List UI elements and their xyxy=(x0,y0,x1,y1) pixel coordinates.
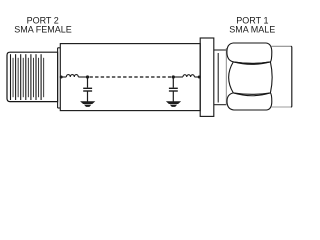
hex nut middle face barrel xyxy=(229,62,273,94)
barrel end line xyxy=(290,46,293,107)
wire node B to L2 xyxy=(173,76,183,78)
wire L1 to node A xyxy=(78,76,87,78)
node at left wall xyxy=(60,76,63,79)
wire L2 to right wall xyxy=(194,76,200,78)
threaded barrel top edge xyxy=(271,45,291,47)
port 2 knurled nut outline xyxy=(7,52,58,101)
hex nut top face inner arc xyxy=(233,62,270,64)
hex nut silhouette left xyxy=(225,48,227,105)
node B junction dot xyxy=(172,75,175,78)
inductor L1 xyxy=(66,75,78,77)
wire C2 to ground xyxy=(172,91,174,102)
nut boss ring xyxy=(214,50,227,105)
dashed transmission line xyxy=(90,76,172,78)
wire node A down to C1 xyxy=(87,77,89,88)
wire C1 to ground xyxy=(87,91,89,102)
node at right wall xyxy=(198,76,201,79)
node A junction dot xyxy=(86,75,89,78)
threaded barrel bottom edge xyxy=(271,106,291,108)
knurl lines xyxy=(11,54,44,100)
svg-text:SMA MALE: SMA MALE xyxy=(229,24,275,34)
ground symbol right xyxy=(166,101,181,107)
ground symbol left xyxy=(80,101,95,107)
capacitor C2 xyxy=(169,88,178,91)
flange xyxy=(200,38,214,116)
hex nut top face pill xyxy=(227,43,272,63)
main body xyxy=(60,44,200,111)
wire node B down to C2 xyxy=(172,77,174,88)
port 2 collar xyxy=(58,48,61,108)
inductor L2 xyxy=(183,75,195,77)
capacitor C1 xyxy=(83,88,92,91)
wire from left wall xyxy=(60,76,66,78)
hex nut bottom face pill xyxy=(227,93,272,110)
svg-text:SMA FEMALE: SMA FEMALE xyxy=(14,24,72,34)
